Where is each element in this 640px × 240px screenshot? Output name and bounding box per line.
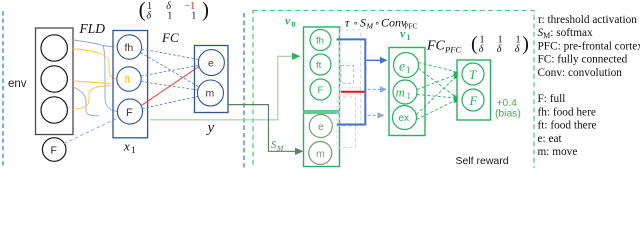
svg-text:δ: δ — [146, 10, 151, 21]
node e1 — [394, 53, 419, 78]
node e (y) — [198, 50, 224, 76]
svg-text:m: m — [396, 85, 405, 100]
svg-text:PFC: pre-frontal cortex: PFC: pre-frontal cortex — [538, 40, 640, 52]
node F (reward) — [462, 89, 484, 111]
svg-text:ft: ft — [125, 74, 131, 86]
svg-text:FC: FC — [161, 30, 179, 45]
wire: F to e (red) — [141, 67, 199, 106]
svg-text:ft: food there: ft: food there — [538, 120, 597, 132]
e/m box (v0 lower) — [304, 113, 340, 167]
svg-text:M: M — [276, 144, 284, 153]
svg-text:): ) — [202, 0, 209, 21]
conv window dashed rect C — [341, 65, 353, 83]
faint dotted from ft — [334, 62, 352, 64]
svg-text:δ: δ — [497, 44, 502, 55]
svg-text:fh: fh — [316, 36, 324, 47]
svg-text:(bias): (bias) — [495, 108, 521, 119]
svg-text:env: env — [8, 78, 27, 90]
svg-text:e: e — [208, 58, 214, 70]
svg-text:PFC: PFC — [405, 23, 418, 31]
svg-text:1: 1 — [191, 10, 196, 21]
svg-text:1: 1 — [407, 91, 412, 101]
svg-text:1: 1 — [407, 33, 411, 42]
svg-text:τ: threshold activation: τ: threshold activation — [538, 14, 638, 26]
svg-text:1: 1 — [406, 65, 411, 75]
svg-text:m: m — [316, 148, 325, 160]
svg-text:v: v — [285, 14, 291, 28]
y box — [195, 46, 229, 113]
node F (environment) — [42, 138, 66, 162]
wire: S_M path from y box to e/m box (sage) — [228, 105, 298, 152]
node env circle 2 — [41, 66, 67, 92]
svg-text:F: full: F: full — [538, 93, 566, 105]
wire: env F to x1 F (dashed blue) — [64, 118, 119, 144]
wire: env c2 to ft (yellow curve) — [73, 81, 110, 84]
wire: blue L from fh/e to conv bar — [337, 39, 366, 124]
node ft — [117, 67, 141, 91]
wire: env c1 to fh (blue curve) — [73, 40, 114, 47]
svg-text:∘: ∘ — [375, 18, 380, 28]
conv window dashed rect A — [340, 30, 361, 126]
v1 box — [389, 48, 425, 136]
svg-text:fh: food here: fh: food here — [538, 106, 596, 118]
wire: env c2 to bus (blue curve) — [73, 87, 99, 116]
matrix PFC weights — [471, 33, 529, 55]
svg-text:e: e — [399, 59, 405, 74]
wire: dashed blue arrow to m1 — [368, 88, 382, 90]
svg-text:F: F — [51, 145, 57, 157]
wire: dashed blue arrow to ex — [368, 114, 379, 116]
node m (y) — [198, 80, 224, 106]
svg-text:1: 1 — [167, 10, 172, 21]
node ft (v0) — [310, 54, 331, 75]
node ex — [393, 106, 417, 130]
svg-text:δ: δ — [515, 44, 520, 55]
faint dotted from F — [334, 87, 363, 89]
svg-text:): ) — [522, 33, 529, 55]
svg-text:x: x — [123, 139, 130, 154]
svg-text:ft: ft — [316, 60, 322, 71]
node e (v0) — [309, 115, 332, 138]
svg-text:y: y — [206, 120, 215, 136]
svg-text:Self reward: Self reward — [456, 155, 509, 167]
node m1 — [393, 80, 417, 104]
svg-text:(: ( — [139, 0, 146, 21]
svg-text:M: M — [366, 22, 374, 31]
svg-text:S: S — [360, 16, 366, 30]
wire: pale green feed line x1 to v0 — [150, 56, 297, 120]
env box — [36, 28, 74, 135]
svg-text:0: 0 — [292, 20, 296, 29]
node env circle 1 — [41, 35, 67, 61]
matrix FLD weights — [139, 0, 209, 21]
svg-text:FC: FC — [426, 39, 446, 54]
legend — [538, 14, 640, 158]
svg-text:SM: softmax: SM: softmax — [538, 27, 593, 40]
svg-text:m: m — [206, 88, 215, 100]
arrowhead into v0 — [292, 53, 301, 60]
svg-text:e: eat: e: eat — [538, 133, 563, 145]
svg-text:Conv: convolution: Conv: convolution — [538, 67, 623, 79]
wires: x1 to y fully connected dashed — [141, 49, 199, 109]
svg-text:ex: ex — [399, 113, 410, 124]
conv window dashed rect B — [337, 97, 356, 147]
svg-text:1: 1 — [131, 146, 136, 156]
svg-text:v: v — [400, 27, 406, 41]
svg-text:(: ( — [471, 33, 478, 55]
TF box — [457, 60, 491, 120]
wire: env c1 to ft (yellow curve) — [73, 49, 117, 80]
node fh — [117, 35, 141, 59]
svg-text:m: move: m: move — [538, 146, 578, 158]
x1 box — [113, 31, 148, 138]
node F (v0) — [310, 79, 331, 100]
node T — [462, 63, 484, 85]
svg-text:PFC: PFC — [444, 45, 461, 55]
green dashed PFC region box — [253, 11, 534, 181]
wire: solid blue arrow bar to e1 — [367, 59, 383, 61]
arrowhead S_M — [295, 148, 304, 155]
svg-text:T: T — [469, 67, 477, 82]
wires: v1 to TF dashed green with arrowheads — [417, 63, 456, 120]
node m (v0) — [309, 142, 332, 165]
node env circle 3 — [41, 97, 67, 123]
svg-text:fh: fh — [125, 42, 134, 54]
label tau composition — [345, 16, 417, 31]
svg-text:FLD: FLD — [79, 21, 106, 36]
svg-text:e: e — [318, 121, 324, 133]
wire: blue dashed right border — [243, 13, 245, 168]
svg-text:F: F — [318, 85, 324, 96]
node F (x1) — [117, 99, 142, 124]
wire: blue dashed left border — [2, 11, 4, 168]
wire: red line from F to bar — [341, 91, 365, 93]
svg-text:FC: fully connected: FC: fully connected — [538, 54, 628, 66]
node fh (v0) — [310, 30, 331, 51]
v0 box (fh ft F) — [304, 27, 340, 111]
svg-text:δ: δ — [479, 44, 484, 55]
svg-text:F: F — [126, 107, 133, 119]
wire: env c3 to ft (yellow curve) — [73, 86, 110, 110]
svg-text:F: F — [469, 93, 479, 108]
svg-text:τ: τ — [345, 16, 350, 30]
svg-text:∘: ∘ — [353, 18, 358, 28]
